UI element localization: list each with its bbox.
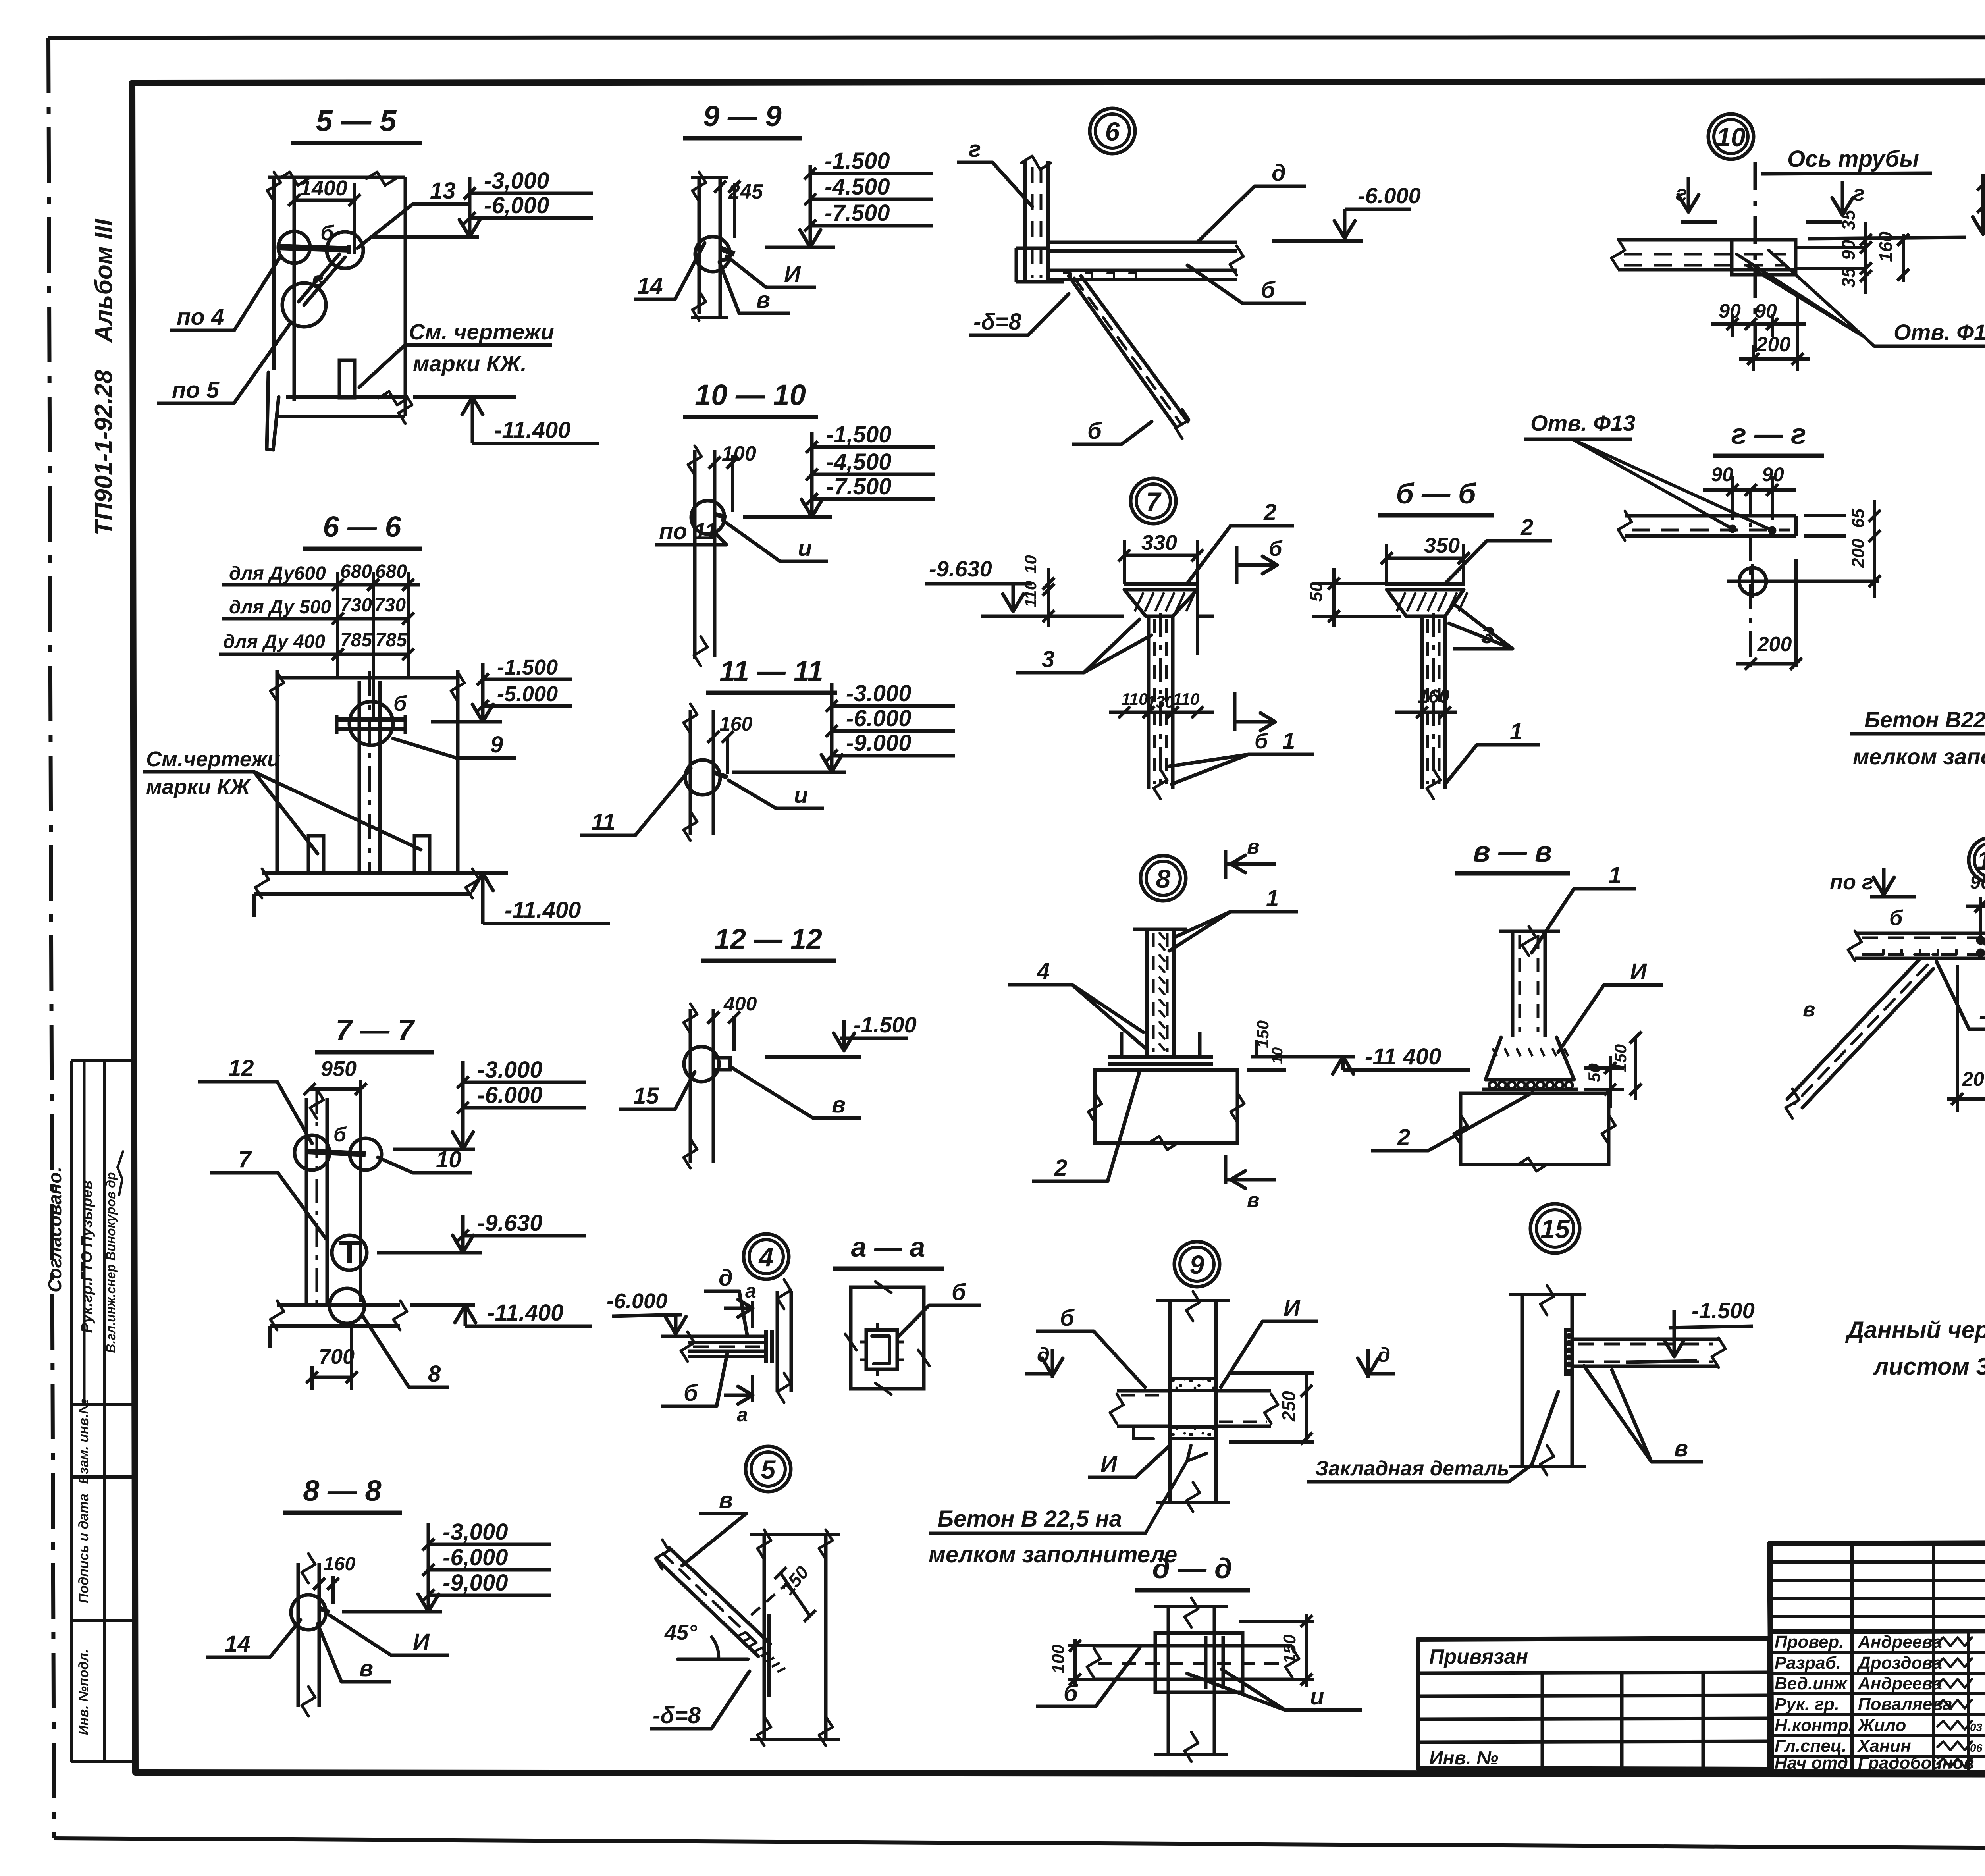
column б-б <box>1422 613 1445 799</box>
leader 14 8-8 <box>206 1620 301 1657</box>
dim 200 bottom <box>1736 559 1802 670</box>
svg-text:1400: 1400 <box>300 176 347 200</box>
svg-text:Данный чертеж рассматривать: Данный чертеж рассматривать совместно с <box>1845 1317 1985 1343</box>
svg-text:Инв. №подл.: Инв. №подл. <box>76 1649 91 1735</box>
column в-в <box>1499 926 1560 1037</box>
svg-text:10: 10 <box>1021 555 1040 574</box>
svg-text:200: 200 <box>1848 538 1868 568</box>
dims 200 200 detail 13 <box>1947 965 1985 1112</box>
rail bar 6-6 <box>337 715 405 734</box>
leader и 11-11 <box>728 780 824 808</box>
svg-text:15: 15 <box>633 1083 659 1109</box>
svg-text:8 — 8: 8 — 8 <box>303 1474 382 1507</box>
note Данный чертеж <box>1845 1317 1985 1380</box>
svg-text:7 — 7: 7 — 7 <box>335 1014 415 1047</box>
leader 2 detail 8 <box>1032 1072 1139 1181</box>
svg-text:-6.000: -6.000 <box>1358 183 1421 208</box>
elevation stack 8-8 <box>342 1519 551 1612</box>
svg-text:б: б <box>1064 1680 1079 1706</box>
svg-text:9: 9 <box>490 732 503 758</box>
label б <box>320 221 334 245</box>
leader б detail 4 <box>661 1351 728 1406</box>
elevation -6.000 detail 4 <box>607 1289 689 1336</box>
svg-text:110: 110 <box>1122 690 1148 708</box>
svg-text:г: г <box>1853 181 1865 205</box>
svg-text:150: 150 <box>1253 1020 1272 1048</box>
svg-text:2: 2 <box>1263 499 1276 525</box>
svg-text:Согласовано:: Согласовано: <box>44 1166 65 1292</box>
svg-text:-4,500: -4,500 <box>826 449 891 475</box>
dim 250 detail 9 <box>1229 1373 1314 1444</box>
detail circles <box>278 231 363 327</box>
weld dots detail 15 <box>1567 1334 1571 1374</box>
section title 10-10 <box>683 378 818 417</box>
svg-text:-1.500: -1.500 <box>825 148 890 174</box>
elevation -11.400 detail 8 <box>1251 1044 1470 1074</box>
elevation -11.400 7-7 <box>410 1300 592 1326</box>
elevation -9.630 <box>925 556 1048 616</box>
leader 1 detail 7 <box>1169 728 1314 784</box>
svg-text:4: 4 <box>1037 958 1050 984</box>
section mark в top <box>1226 835 1276 879</box>
svg-text:в: в <box>359 1656 373 1681</box>
svg-text:б: б <box>320 221 334 245</box>
leader 11 <box>580 768 691 835</box>
svg-text:-3.000: -3.000 <box>846 681 911 706</box>
svg-text:65: 65 <box>1848 509 1868 528</box>
svg-text:-δ=8: -δ=8 <box>653 1702 701 1728</box>
svg-text:8: 8 <box>1156 864 1171 893</box>
section mark г right <box>1806 181 1865 222</box>
svg-text:14: 14 <box>225 1631 251 1657</box>
svg-text:Ось трубы: Ось трубы <box>1787 146 1919 172</box>
svg-text:-6,000: -6,000 <box>443 1544 508 1570</box>
svg-text:Нач отд: Нач отд <box>1775 1753 1848 1773</box>
svg-text:Взам. инв.№: Взам. инв.№ <box>76 1398 91 1484</box>
detail circle number 5 <box>746 1446 791 1492</box>
svg-text:Инв. №: Инв. № <box>1429 1748 1498 1769</box>
detail 9-9 column <box>691 172 728 320</box>
svg-text:13: 13 <box>430 178 456 204</box>
svg-text:для Ду600: для Ду600 <box>229 563 326 584</box>
detail circle number 9 <box>1174 1242 1220 1287</box>
svg-text:7: 7 <box>1146 487 1162 516</box>
svg-text:И: И <box>1100 1451 1118 1477</box>
column 11-11 <box>684 704 713 841</box>
dim 350 <box>1381 534 1470 586</box>
svg-text:160: 160 <box>1875 231 1896 262</box>
gusset plate detail 5 <box>767 1614 771 1697</box>
svg-text:в: в <box>1674 1436 1688 1461</box>
svg-text:-δ=8: -δ=8 <box>973 309 1022 335</box>
svg-text:Андреева: Андреева <box>1858 1632 1942 1652</box>
svg-text:Бетон В 22,5 на: Бетон В 22,5 на <box>937 1506 1122 1532</box>
svg-text:700: 700 <box>319 1345 355 1369</box>
svg-text:7: 7 <box>238 1147 252 1172</box>
margin signatures <box>79 1151 123 1353</box>
leader и <box>723 520 828 561</box>
detail circles 7-7 <box>295 1135 382 1323</box>
svg-text:б: б <box>333 1123 347 1146</box>
leader по 5 <box>157 322 291 403</box>
leader Отв Ф13 detail 10 <box>1736 250 1985 346</box>
section title д-д <box>1135 1553 1250 1590</box>
bottom slab 7-7 <box>270 1301 407 1348</box>
svg-text:Бетон В225 на: Бетон В225 на <box>1864 707 1985 732</box>
bolt block д-д <box>1155 1633 1243 1692</box>
leader 10 <box>378 1147 472 1173</box>
svg-text:И: И <box>1630 959 1647 985</box>
svg-text:785: 785 <box>375 630 407 651</box>
dim 700 <box>306 1326 358 1390</box>
svg-text:6: 6 <box>1105 117 1120 146</box>
svg-text:110: 110 <box>1021 581 1040 607</box>
dim 330 <box>1118 531 1203 655</box>
leader 8 <box>363 1317 449 1387</box>
leader в 8-8 <box>318 1624 391 1682</box>
svg-text:06 58: 06 58 <box>1970 1742 1985 1754</box>
concrete bands detail 9 <box>1170 1379 1216 1439</box>
margin text Согласовано <box>44 1166 65 1292</box>
svg-text:мелком заполнителе: мелком заполнителе <box>929 1542 1177 1568</box>
svg-text:марки КЖ.: марки КЖ. <box>413 351 527 376</box>
svg-text:160: 160 <box>1418 686 1449 707</box>
base trapezoid 7 <box>1124 590 1197 616</box>
elevation -6.000 detail 6 <box>1272 183 1421 241</box>
outer border top <box>48 37 1985 38</box>
svg-text:11 — 11: 11 — 11 <box>719 656 823 687</box>
column 8-8 <box>298 1554 319 1716</box>
label б detail 13 <box>1889 906 1903 930</box>
inner channel а-а <box>860 1323 904 1376</box>
svg-text:680: 680 <box>340 561 372 582</box>
svg-text:1: 1 <box>1609 862 1621 888</box>
svg-text:б: б <box>1255 729 1268 753</box>
svg-text:-9.630: -9.630 <box>477 1210 542 1236</box>
svg-text:Разраб.: Разраб. <box>1775 1653 1841 1673</box>
svg-text:Жило: Жило <box>1857 1716 1906 1735</box>
svg-text:1: 1 <box>1510 719 1522 744</box>
section title 8-8 <box>283 1474 402 1513</box>
section title а-а <box>833 1232 944 1269</box>
title block annex Привязан <box>1418 1638 1770 1769</box>
svg-text:785: 785 <box>340 630 372 651</box>
weld marks <box>1064 273 1136 278</box>
svg-text:10: 10 <box>1716 122 1746 152</box>
elevation stack 11-11 <box>732 681 955 772</box>
svg-text:15: 15 <box>1540 1214 1570 1244</box>
detail 5-5 wall <box>267 172 405 416</box>
wall detail 5 <box>750 1530 840 1746</box>
svg-text:в: в <box>1247 1189 1259 1212</box>
svg-text:И: И <box>413 1629 430 1655</box>
bottom slab 6-6 <box>254 869 479 917</box>
svg-text:по 4: по 4 <box>177 304 224 330</box>
dims 150 10 <box>1247 1020 1286 1070</box>
elevation stack 9-9 <box>765 148 933 247</box>
leader б detail 9 <box>1036 1305 1145 1387</box>
svg-text:-6.000: -6.000 <box>607 1289 667 1313</box>
svg-text:950: 950 <box>321 1057 357 1081</box>
leader 7 <box>210 1147 326 1239</box>
leader по 11 <box>655 519 727 545</box>
svg-text:б: б <box>1060 1305 1075 1331</box>
svg-text:д: д <box>1272 160 1286 186</box>
svg-text:-δ=8: -δ=8 <box>1979 1003 1985 1029</box>
table row для Ду500 <box>222 595 409 619</box>
svg-text:10 — 10: 10 — 10 <box>695 378 806 411</box>
section mark б bottom <box>1235 692 1275 753</box>
leader по 4 <box>170 257 280 330</box>
svg-text:35: 35 <box>1838 267 1859 288</box>
leader в detail 15 <box>1584 1366 1703 1462</box>
section title 7-7 <box>315 1014 434 1052</box>
svg-text:И: И <box>1284 1295 1301 1321</box>
leader б д-д <box>1036 1648 1140 1706</box>
weld hatch detail 5 <box>738 1632 785 1672</box>
diagonal rail в <box>299 254 345 305</box>
svg-text:-11.400: -11.400 <box>494 417 570 443</box>
table dim verticals <box>332 572 414 719</box>
leader 4 <box>1008 958 1145 1048</box>
dim 950 <box>304 1057 367 1302</box>
detail circle 9-9 <box>695 237 734 272</box>
svg-text:ТП901-1-92.28 Альбом III: ТП901-1-92.28 Альбом III <box>90 218 118 536</box>
leader в detail 5 <box>682 1487 746 1566</box>
elevation stack 10-10 <box>743 422 935 517</box>
svg-text:Закладная деталь: Закладная деталь <box>1315 1457 1509 1480</box>
column 12-12 <box>684 1004 713 1168</box>
detail circle 8-8 <box>291 1595 330 1630</box>
svg-text:8: 8 <box>428 1361 441 1387</box>
detail circle 6-6 <box>349 702 393 745</box>
svg-text:-6.000: -6.000 <box>477 1082 542 1108</box>
dim 160 <box>707 713 753 774</box>
svg-text:г: г <box>1676 181 1687 205</box>
svg-text:730: 730 <box>340 595 372 616</box>
rail bar б <box>278 245 349 254</box>
svg-text:Провер.: Провер. <box>1775 1632 1844 1652</box>
elevation -9.630 7-7 <box>377 1210 586 1253</box>
dim 100 д-д <box>1048 1639 1100 1687</box>
svg-text:-9.630: -9.630 <box>929 556 992 581</box>
svg-text:б: б <box>952 1279 967 1305</box>
detail circle number 13 <box>1969 837 1985 883</box>
svg-text:3: 3 <box>1042 646 1054 672</box>
svg-text:в: в <box>312 268 324 290</box>
table row для Ду400 <box>219 630 409 654</box>
svg-text:2: 2 <box>1397 1124 1410 1150</box>
svg-text:б: б <box>1261 277 1276 303</box>
detail 6-6 walls <box>270 670 464 873</box>
dims 110 130 110 <box>1109 690 1214 718</box>
leader б <box>1187 265 1306 303</box>
svg-text:150: 150 <box>1611 1044 1630 1072</box>
dim 160 <box>1395 686 1457 718</box>
leader 15 <box>619 1072 695 1109</box>
svg-text:-11.400: -11.400 <box>505 897 581 923</box>
svg-text:03 58: 03 58 <box>1970 1721 1985 1733</box>
section mark по г left <box>1830 868 1916 897</box>
svg-text:1: 1 <box>1282 728 1295 754</box>
leader д <box>1197 160 1306 242</box>
slab д-д <box>1087 1646 1299 1679</box>
svg-text:в: в <box>719 1487 733 1513</box>
left foot <box>267 372 279 450</box>
svg-text:200: 200 <box>1962 1068 1985 1090</box>
bolt holes detail 13 <box>1977 937 1985 956</box>
svg-text:Гл.спец.: Гл.спец. <box>1775 1736 1846 1756</box>
leader 2 detail 7 <box>1187 499 1294 584</box>
svg-text:-9.000: -9.000 <box>846 730 911 756</box>
base trapezoid б-б <box>1387 590 1467 616</box>
svg-text:6 — 6: 6 — 6 <box>323 510 401 543</box>
svg-text:-11 400: -11 400 <box>1365 1044 1441 1070</box>
svg-text:-1.500: -1.500 <box>1692 1298 1755 1323</box>
bottom slab 5-5 <box>278 391 412 424</box>
dim 245 <box>714 180 763 238</box>
svg-text:д: д <box>719 1265 733 1291</box>
svg-text:110: 110 <box>1173 690 1200 708</box>
leader -δ=8 detail 13 <box>1937 962 1985 1029</box>
detail circle 12-12 <box>684 1047 730 1082</box>
svg-text:Рук.гр.ГТО Пузырев: Рук.гр.ГТО Пузырев <box>79 1180 95 1333</box>
svg-text:по г: по г <box>1830 870 1873 894</box>
svg-text:400: 400 <box>723 993 757 1015</box>
note См. чертежи марки КЖ <box>359 319 554 387</box>
svg-text:См.чертежи: См.чертежи <box>146 747 280 771</box>
note См.чертежи марки КЖ 6-6 <box>143 747 421 854</box>
svg-text:-6.000: -6.000 <box>846 706 911 731</box>
leader И 8-8 <box>330 1615 449 1655</box>
svg-text:б: б <box>393 692 407 715</box>
svg-text:и: и <box>794 782 808 808</box>
plate detail 13 <box>1848 931 1985 960</box>
section title б-б <box>1378 478 1494 515</box>
detail 6 post <box>1021 156 1051 283</box>
section title в-в <box>1455 836 1570 873</box>
elevation -1.500 detail 15 <box>1626 1298 1755 1362</box>
base trapezoid в-в <box>1486 1037 1574 1080</box>
section title 11-11 <box>706 656 837 693</box>
svg-text:-9,000: -9,000 <box>443 1570 508 1596</box>
detail circle number 6 <box>1090 108 1135 154</box>
svg-text:для Ду 400: для Ду 400 <box>223 631 325 652</box>
svg-text:В.гл.инж.снер Винокуров др: В.гл.инж.снер Винокуров др <box>104 1172 118 1353</box>
svg-text:-5.000: -5.000 <box>497 682 558 706</box>
svg-text:4: 4 <box>758 1242 774 1272</box>
angle 45 <box>664 1621 748 1659</box>
leader 3 б-б <box>1449 603 1513 649</box>
detail circle number 4 <box>744 1234 789 1279</box>
svg-text:-3,000: -3,000 <box>443 1519 508 1545</box>
svg-text:14: 14 <box>637 273 663 299</box>
svg-text:12: 12 <box>228 1055 254 1081</box>
svg-text:д: д <box>1037 1344 1050 1367</box>
svg-text:И: И <box>784 261 801 287</box>
svg-text:г — г: г — г <box>1731 418 1806 450</box>
leader 13 <box>357 178 468 248</box>
diagonal brace detail 13 <box>1786 958 1933 1118</box>
svg-text:б: б <box>1889 906 1903 930</box>
leader б bottom <box>1072 418 1152 444</box>
beam detail 4 <box>681 1332 765 1361</box>
svg-text:д — д: д — д <box>1152 1553 1232 1585</box>
leader Отв Ф13 detail 13 <box>1983 942 1985 1059</box>
svg-text:5: 5 <box>761 1455 776 1484</box>
svg-text:б: б <box>684 1380 699 1406</box>
section title 5-5 <box>291 104 422 143</box>
dim 400 <box>707 993 757 1051</box>
svg-text:13: 13 <box>1977 846 1985 875</box>
svg-text:Отв. Ф13: Отв. Ф13 <box>1894 320 1985 345</box>
svg-text:мелком заполнителе: мелком заполнителе <box>1853 744 1985 769</box>
svg-text:в: в <box>1803 998 1815 1021</box>
dims 90 90 detail 13 <box>1966 872 1985 965</box>
svg-text:11: 11 <box>592 809 615 835</box>
end plate detail 4 <box>766 1330 772 1363</box>
base plate line в-в <box>1482 1088 1578 1091</box>
svg-text:2: 2 <box>1520 515 1533 540</box>
column detail 8 <box>1133 929 1187 1057</box>
svg-text:д: д <box>1378 1344 1390 1367</box>
svg-text:330: 330 <box>1141 531 1177 555</box>
svg-text:-3,000: -3,000 <box>484 168 549 194</box>
label Закладная деталь detail 15 <box>1307 1392 1558 1482</box>
leader И <box>727 256 816 287</box>
plate right edge <box>1796 247 1864 268</box>
stub <box>339 360 355 398</box>
svg-text:и: и <box>1310 1684 1324 1710</box>
wall д-д <box>1154 1598 1228 1762</box>
plate holes <box>1730 526 1775 533</box>
svg-text:12 — 12: 12 — 12 <box>714 924 822 955</box>
elevation -3.000/-6.000 7-7 <box>393 1057 586 1149</box>
elevation -1.500 12-12 <box>765 1012 917 1057</box>
svg-text:а — а: а — а <box>851 1232 925 1263</box>
detail 10-10 column <box>688 446 715 666</box>
base line <box>1048 615 1214 618</box>
label Ось трубы <box>1761 146 1932 174</box>
svg-text:-1.500: -1.500 <box>497 656 558 679</box>
section mark д right <box>1358 1344 1395 1378</box>
svg-text:Привязан: Привязан <box>1429 1645 1528 1668</box>
detail circle number 15 <box>1530 1204 1580 1253</box>
elevation -3.000/-6.000 <box>370 168 593 237</box>
svg-text:100: 100 <box>722 442 756 465</box>
svg-text:45°: 45° <box>664 1621 697 1645</box>
svg-text:350: 350 <box>1424 534 1460 557</box>
section mark а bottom <box>724 1375 753 1426</box>
beam detail 15 <box>1566 1330 1725 1375</box>
leader 1 detail 8 <box>1169 885 1298 951</box>
square section а-а <box>845 1282 929 1394</box>
margin box labels <box>76 1398 91 1735</box>
margin sign boxes <box>71 1061 132 1762</box>
section mark в bottom <box>1226 1155 1276 1212</box>
svg-text:680: 680 <box>375 561 407 582</box>
leader 12 <box>198 1055 312 1143</box>
svg-text:Ханин: Ханин <box>1857 1736 1911 1756</box>
svg-text:Отв. Ф13: Отв. Ф13 <box>1530 411 1635 436</box>
svg-text:марки КЖ: марки КЖ <box>146 775 251 799</box>
plate б-б <box>1387 584 1464 590</box>
dims 35 90 35 160 <box>1838 209 1909 294</box>
wall detail 4 <box>777 1280 791 1402</box>
plate г-г <box>1618 511 1796 540</box>
column 6-6 <box>359 671 380 873</box>
svg-text:б: б <box>1269 537 1283 561</box>
